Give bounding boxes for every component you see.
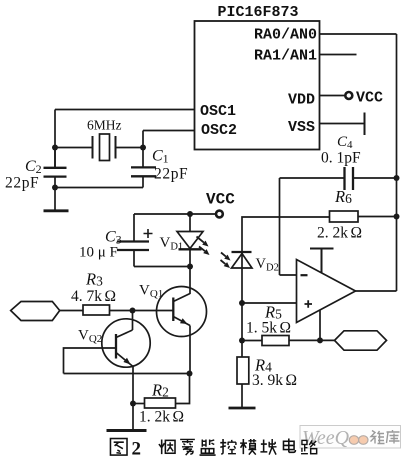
caption glyph 图 — [110, 439, 127, 456]
wire VQ2 emitter to ground — [132, 367, 134, 404]
arrows VD2 (receiving) — [221, 253, 231, 269]
wire VQ1 collector — [189, 267, 191, 295]
resistor R3 — [83, 305, 110, 315]
wire VQ2 collector — [132, 311, 134, 331]
resistor R6 — [330, 211, 397, 222]
op-amp U1 — [297, 260, 356, 323]
node R6 right — [394, 214, 400, 220]
svg-text:VQ2: VQ2 — [78, 328, 102, 346]
caption glyph 模 — [240, 439, 256, 455]
svg-text:C1: C1 — [152, 148, 169, 166]
node VD1 top — [187, 211, 193, 217]
wire op-amp output — [356, 290, 397, 292]
node R2 left — [130, 401, 136, 407]
resistor R2 — [133, 374, 190, 409]
node C4 right — [394, 175, 400, 181]
wire VQ2 base loop — [64, 348, 117, 374]
svg-text:0. 1pF: 0. 1pF — [321, 150, 361, 167]
svg-text:1. 2kΩ: 1. 2kΩ — [139, 409, 184, 426]
crystal Y1 6MHz — [93, 134, 116, 161]
terminal VCC (right) — [345, 92, 352, 99]
capacitor C4 — [280, 167, 397, 190]
wire VD2 top — [242, 217, 330, 252]
svg-text:2: 2 — [132, 439, 142, 456]
ground (R4) — [229, 407, 256, 410]
arrows VD1 (emitting) — [197, 237, 210, 256]
svg-text:4. 7kΩ: 4. 7kΩ — [71, 288, 116, 305]
wire emitter bus — [64, 373, 190, 375]
wire op-amp minus branch — [280, 178, 297, 275]
wire C2 to C1 bottom — [55, 187, 143, 189]
svg-text:VD1: VD1 — [160, 235, 184, 253]
svg-text:VQ1: VQ1 — [139, 283, 163, 301]
resistor R5 — [242, 336, 335, 346]
capacitor C2 — [44, 148, 67, 188]
IC U1 PIC16F873 box — [195, 21, 320, 150]
resistor R4 — [237, 357, 249, 408]
transistor VQ1 — [157, 287, 207, 337]
svg-text:VCC: VCC — [206, 191, 235, 209]
svg-text:6MHz: 6MHz — [87, 118, 122, 133]
svg-text:C4: C4 — [337, 134, 353, 151]
connector J1 (input hexagon) — [11, 302, 60, 321]
svg-text:22pF: 22pF — [154, 166, 188, 183]
wire op-amp bottom pin — [319, 311, 321, 341]
wire left crystal rail — [54, 110, 56, 168]
wire OSC2 drop — [142, 131, 144, 148]
watermark glyph 维 — [371, 431, 385, 444]
caption glyph 雾 — [180, 439, 195, 455]
node VQ1 base — [130, 308, 136, 314]
svg-text:3. 9kΩ: 3. 9kΩ — [252, 372, 297, 389]
svg-text:VCC: VCC — [356, 90, 383, 107]
wire RA0/AN0 to right rail — [320, 33, 397, 35]
wire VQ1 emitter — [189, 326, 191, 374]
watermark WeeQoo box — [300, 426, 401, 450]
node output junction — [317, 337, 323, 343]
svg-text:OSC1: OSC1 — [200, 103, 236, 120]
svg-text:22pF: 22pF — [5, 175, 39, 192]
caption: 图 2 烟雾监控模块电路 (fake glyphs) — [110, 439, 316, 456]
polarity + (C3) — [144, 229, 153, 238]
node plus input — [239, 300, 245, 306]
svg-text:1. 5kΩ: 1. 5kΩ — [246, 320, 291, 337]
LED VD1 — [177, 214, 203, 267]
svg-text:C2: C2 — [25, 158, 42, 176]
wire R2 left ground drop — [132, 404, 134, 431]
caption glyph 烟 — [159, 439, 175, 454]
svg-text:WeeQ: WeeQ — [302, 427, 350, 449]
wire VSS stub with end bar — [320, 113, 365, 136]
wire R3 to base node — [110, 310, 174, 312]
wire right rail — [396, 34, 398, 291]
capacitor C3 — [117, 214, 190, 267]
caption glyph 路 — [301, 440, 317, 453]
caption glyph 块 — [260, 439, 276, 455]
caption glyph 电 — [283, 439, 295, 453]
node crystal left — [52, 145, 58, 151]
wire node to crystal — [55, 147, 93, 149]
capacitor C1 — [131, 148, 156, 188]
wire VCC feed — [134, 213, 216, 215]
ground (crystal) — [44, 188, 69, 211]
svg-text:PIC16F873: PIC16F873 — [218, 4, 299, 21]
watermark glyph 库 — [387, 430, 400, 444]
op-amp power bar — [310, 249, 334, 274]
wire VDD to VCC terminal — [320, 95, 346, 97]
node VQ1 emitter — [187, 371, 193, 377]
node VD1 bottom — [187, 264, 193, 270]
svg-text:VDD: VDD — [288, 92, 315, 109]
transistor VQ2 — [102, 319, 150, 367]
node R5 left — [239, 338, 245, 344]
wire VD2 bottom rail — [241, 252, 243, 357]
wire plus input — [242, 302, 297, 304]
svg-text:RA1/AN1: RA1/AN1 — [254, 48, 317, 65]
svg-text:2. 2kΩ: 2. 2kΩ — [317, 225, 362, 242]
node crystal right — [140, 145, 146, 151]
wire OSC1 — [55, 109, 195, 111]
wire hexagon to R3 — [60, 310, 83, 312]
svg-text:OSC2: OSC2 — [201, 122, 237, 139]
svg-text:VD2: VD2 — [256, 256, 279, 274]
svg-text:R6: R6 — [334, 187, 352, 206]
node C2 bottom — [52, 185, 58, 191]
photodiode VD2 — [232, 252, 253, 268]
wire RA1/AN1 stub — [320, 54, 357, 56]
svg-text:VSS: VSS — [288, 119, 315, 136]
caption glyph 监 — [200, 439, 216, 455]
connector J2 (output hexagon) — [335, 331, 387, 350]
ground (R2) — [107, 429, 147, 432]
wire OSC2 — [143, 130, 195, 132]
svg-text:10 μ F: 10 μ F — [79, 245, 118, 261]
svg-text:R3: R3 — [85, 270, 103, 289]
wire crystal to node — [116, 147, 144, 149]
caption glyph 控 — [220, 439, 236, 454]
svg-text:RA0/AN0: RA0/AN0 — [254, 27, 317, 44]
svg-text:R2: R2 — [151, 381, 169, 400]
terminal VCC (middle) — [216, 211, 223, 218]
